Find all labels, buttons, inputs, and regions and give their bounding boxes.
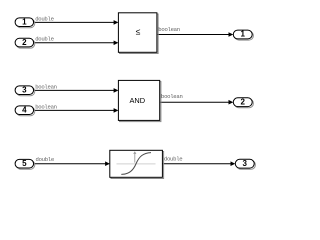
wire (34, 163, 106, 165)
svg-text:5: 5 (22, 159, 27, 168)
relational operator block <= (118, 13, 158, 54)
outport 2 (233, 97, 253, 108)
svg-text:1: 1 (22, 18, 27, 27)
svg-text:≤: ≤ (136, 27, 141, 37)
wire (34, 89, 115, 91)
wire (157, 34, 229, 36)
svg-text:double: double (35, 16, 53, 23)
svg-text:2: 2 (22, 38, 27, 47)
icon sigmoid curve (121, 153, 151, 175)
arrowhead into AND block port 2 (114, 108, 119, 113)
arrowhead into relational block port 1 (114, 20, 119, 25)
svg-text:2: 2 (240, 97, 245, 106)
outport 1 (233, 30, 253, 41)
svg-text:4: 4 (22, 105, 27, 114)
inport 4 (15, 105, 35, 115)
arrowhead into outport 2 (229, 100, 234, 105)
wire (34, 109, 115, 111)
arrowhead into saturation block (105, 161, 110, 166)
inport 1 (15, 18, 35, 28)
svg-text:double: double (35, 36, 53, 43)
svg-text:double: double (164, 156, 182, 163)
outport 3 (235, 159, 255, 169)
icon y-axis arrow (134, 154, 136, 163)
wire (34, 42, 115, 44)
svg-text:boolean: boolean (35, 104, 57, 111)
svg-text:3: 3 (22, 85, 27, 94)
wire (160, 101, 229, 103)
arrowhead into relational block port 2 (114, 41, 119, 46)
inport 3 (15, 85, 35, 95)
wire (34, 21, 115, 23)
arrowhead into outport 3 (231, 161, 236, 166)
svg-text:boolean: boolean (161, 93, 183, 100)
arrowhead into AND block port 1 (114, 88, 119, 93)
svg-text:boolean: boolean (35, 84, 57, 91)
AND logical operator block (118, 80, 160, 121)
wire (163, 163, 232, 165)
icon x-axis (117, 163, 156, 165)
svg-text:boolean: boolean (158, 26, 180, 33)
arrowhead into outport 1 (229, 32, 234, 37)
inport 5 (15, 159, 35, 169)
svg-text:AND: AND (129, 96, 145, 105)
inport 2 (15, 38, 35, 48)
svg-text:1: 1 (240, 30, 245, 39)
svg-text:3: 3 (242, 159, 247, 168)
svg-text:double: double (36, 156, 54, 163)
saturation (sigmoid) block (110, 150, 164, 178)
